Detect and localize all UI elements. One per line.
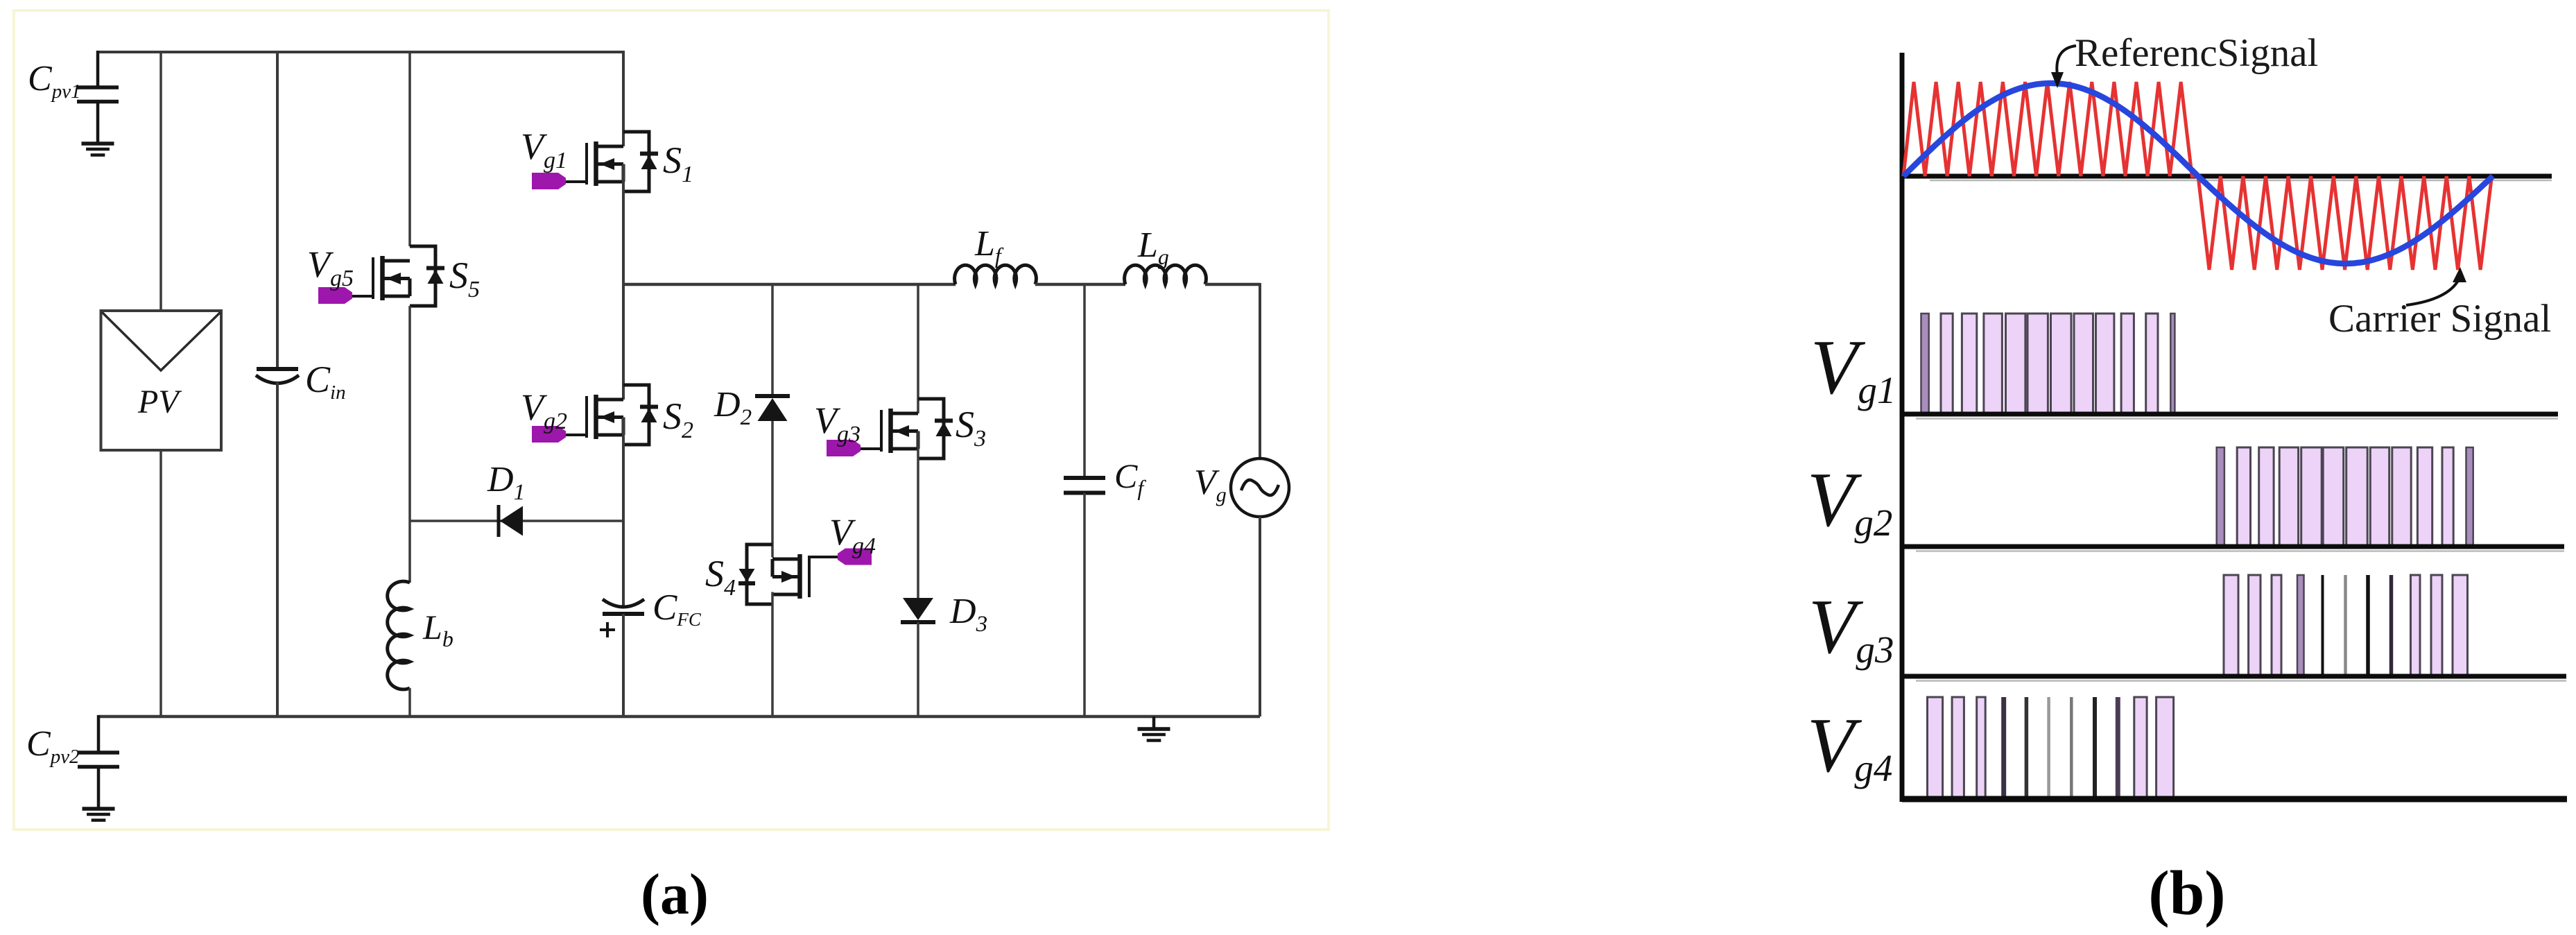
wire CFC bottom: [622, 614, 625, 717]
diode D1: [497, 505, 501, 537]
transistor S1: [623, 132, 649, 191]
wire Lb bottom: [408, 688, 411, 717]
transistor S4: [747, 544, 772, 604]
PV panel: [101, 311, 222, 450]
transistor S2: [623, 385, 649, 445]
wire Cf top: [1083, 284, 1086, 478]
diode D2: [755, 394, 790, 398]
pulses Vg2: [2217, 447, 2224, 547]
gate wire S1: [560, 180, 587, 183]
reference signal (blue sine): [1903, 83, 2493, 264]
gate wire S5: [347, 295, 373, 298]
wire: bottom bus: [98, 715, 1260, 719]
wire S1-S2: [622, 164, 625, 400]
gate tag Vg3: [827, 440, 861, 456]
svg-text:Carrier Signal: Carrier Signal: [2328, 297, 2551, 341]
ground (Cpv2): [83, 807, 115, 811]
gate wire S2: [560, 434, 587, 436]
wire D2-S4: [771, 421, 774, 558]
source Vg: [1231, 458, 1289, 517]
wire Vg top: [1259, 283, 1261, 458]
gate tag Vg2: [532, 426, 566, 443]
wire Cin top: [276, 52, 279, 369]
baseline Vg2: [1902, 544, 2564, 549]
diode D3: [903, 598, 933, 620]
wire S3 top: [917, 283, 919, 413]
wire S5 source to D1 node: [408, 306, 411, 583]
wire S2 source down: [622, 418, 625, 607]
wire Vg bottom: [1259, 517, 1261, 717]
panel (a) frame: [14, 10, 1329, 830]
baseline Vg1: [1902, 412, 2558, 417]
arrow to reference signal: [2057, 46, 2076, 75]
svg-text:(a): (a): [641, 862, 709, 927]
pulses Vg3: [2224, 575, 2238, 676]
transistor S3: [918, 399, 944, 458]
inductor Lg: [1125, 265, 1207, 284]
wire PV top: [159, 52, 162, 311]
gate wire S4: [809, 556, 838, 558]
gate tag Vg5: [318, 287, 352, 304]
inductor Lf: [955, 265, 1037, 284]
capacitor Cin: [257, 367, 298, 371]
carrier signal (red triangle wave): [1903, 82, 2492, 270]
wire: top bus: [98, 51, 623, 53]
wire Lf-Lg: [1035, 283, 1125, 286]
gate tag Vg1: [532, 173, 566, 189]
svg-text:PV: PV: [137, 384, 182, 420]
svg-text:ReferencSignal: ReferencSignal: [2075, 31, 2318, 75]
transistor S5: [410, 246, 435, 306]
axis (b): [1900, 53, 1905, 802]
wire Lg-right: [1205, 283, 1260, 286]
wire D1: [410, 520, 623, 522]
wire main bus top: [622, 51, 625, 146]
capacitor Cpv2: [97, 715, 101, 753]
ground (Cpv1): [82, 141, 114, 146]
wire D3 bottom: [917, 622, 919, 717]
wire inverter output: [623, 283, 956, 286]
svg-text:(b): (b): [2148, 858, 2225, 928]
zero line: [1900, 174, 2552, 179]
pulses Vg4: [1928, 697, 1943, 799]
gate tag Vg4: [838, 549, 872, 565]
pulses Vg1: [1921, 314, 1929, 414]
gate wire S3: [855, 447, 881, 450]
capacitor CFC: [603, 599, 644, 607]
capacitor Cpv1: [96, 51, 100, 87]
wire S5 drain: [408, 52, 411, 246]
plus sign CFC: [600, 628, 615, 631]
ground (output): [1152, 717, 1156, 729]
capacitor Cf: [1064, 476, 1105, 480]
wire S4 bottom: [771, 592, 774, 717]
arrow to carrier signal: [2406, 280, 2459, 305]
baseline Vg4 / x-axis: [1902, 796, 2567, 803]
wire PV bottom: [159, 450, 162, 717]
inductor Lb: [388, 581, 410, 689]
wire D2 top: [771, 283, 774, 397]
baseline Vg3: [1902, 674, 2566, 679]
wire S3-D3: [917, 431, 919, 599]
